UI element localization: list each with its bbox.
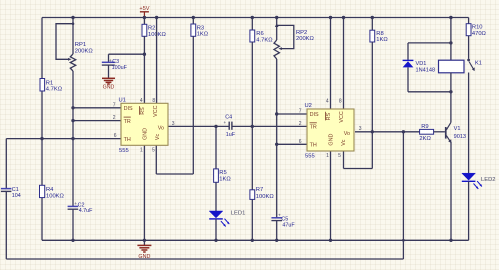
svg-text:R7: R7 bbox=[256, 187, 263, 193]
svg-text:200KΩ: 200KΩ bbox=[75, 48, 94, 54]
svg-text:VCC: VCC bbox=[339, 111, 345, 122]
svg-text:6: 6 bbox=[114, 133, 117, 139]
svg-text:V1: V1 bbox=[454, 126, 461, 132]
svg-text:47uF: 47uF bbox=[282, 222, 295, 228]
svg-text:2: 2 bbox=[299, 121, 302, 127]
svg-text:8: 8 bbox=[339, 99, 342, 105]
svg-text:GND: GND bbox=[143, 128, 149, 140]
svg-text:4: 4 bbox=[140, 98, 143, 104]
svg-text:VCC: VCC bbox=[153, 105, 159, 116]
svg-text:R5: R5 bbox=[219, 170, 226, 176]
svg-text:1KΩ: 1KΩ bbox=[197, 32, 209, 38]
svg-text:7: 7 bbox=[113, 102, 116, 108]
svg-text:R2: R2 bbox=[148, 26, 155, 32]
svg-text:GND: GND bbox=[103, 85, 115, 91]
svg-text:555: 555 bbox=[305, 154, 315, 160]
svg-text:Vo: Vo bbox=[158, 125, 164, 131]
svg-text:1KΩ: 1KΩ bbox=[219, 177, 231, 183]
svg-text:100uF: 100uF bbox=[112, 65, 128, 71]
svg-text:R9: R9 bbox=[421, 124, 428, 130]
svg-text:DIS: DIS bbox=[310, 112, 319, 118]
svg-text:1uF: 1uF bbox=[226, 132, 236, 138]
svg-text:470Ω: 470Ω bbox=[472, 31, 487, 37]
svg-text:U1: U1 bbox=[119, 98, 126, 104]
svg-text:100KΩ: 100KΩ bbox=[46, 193, 65, 199]
svg-text:C4: C4 bbox=[225, 115, 232, 121]
svg-text:TR: TR bbox=[310, 125, 317, 131]
svg-text:K1: K1 bbox=[475, 60, 482, 66]
svg-text:Vc: Vc bbox=[341, 139, 347, 146]
svg-text:+5V: +5V bbox=[139, 6, 149, 12]
svg-text:R1: R1 bbox=[46, 80, 53, 86]
svg-text:4.7uF: 4.7uF bbox=[79, 208, 93, 214]
svg-text:RP1: RP1 bbox=[75, 42, 86, 48]
svg-text:R3: R3 bbox=[197, 25, 204, 31]
svg-text:6: 6 bbox=[299, 139, 302, 145]
svg-text:GND: GND bbox=[138, 254, 150, 260]
svg-text:RS: RS bbox=[326, 113, 332, 121]
svg-text:9013: 9013 bbox=[454, 134, 466, 140]
svg-text:DIS: DIS bbox=[124, 106, 133, 112]
svg-text:555: 555 bbox=[119, 148, 129, 154]
svg-text:TH: TH bbox=[310, 143, 317, 149]
svg-text:R10: R10 bbox=[472, 25, 483, 31]
svg-text:+: + bbox=[224, 120, 227, 125]
svg-text:1: 1 bbox=[140, 147, 143, 153]
svg-text:1N4148: 1N4148 bbox=[416, 68, 436, 74]
svg-text:R6: R6 bbox=[256, 31, 263, 37]
svg-text:TH: TH bbox=[124, 137, 131, 143]
svg-text:104: 104 bbox=[12, 193, 21, 199]
svg-text:1KΩ: 1KΩ bbox=[376, 37, 388, 43]
svg-text:U2: U2 bbox=[305, 103, 312, 109]
svg-text:2KΩ: 2KΩ bbox=[419, 136, 431, 142]
svg-text:2: 2 bbox=[113, 115, 116, 121]
svg-text:8: 8 bbox=[152, 98, 155, 104]
svg-text:LED1: LED1 bbox=[231, 210, 246, 216]
svg-text:C3: C3 bbox=[112, 59, 119, 65]
svg-text:R4: R4 bbox=[46, 187, 54, 193]
svg-text:4.7KΩ: 4.7KΩ bbox=[256, 38, 273, 44]
svg-text:R8: R8 bbox=[376, 31, 383, 37]
svg-text:RS: RS bbox=[140, 107, 146, 115]
svg-text:7: 7 bbox=[299, 109, 302, 115]
svg-text:100KΩ: 100KΩ bbox=[148, 32, 167, 38]
svg-text:1: 1 bbox=[326, 153, 329, 159]
svg-text:4.7KΩ: 4.7KΩ bbox=[46, 87, 63, 93]
svg-text:5: 5 bbox=[338, 153, 341, 159]
svg-text:100KΩ: 100KΩ bbox=[256, 194, 275, 200]
svg-text:VD1: VD1 bbox=[416, 61, 427, 67]
svg-text:Vc: Vc bbox=[155, 134, 161, 141]
svg-text:3: 3 bbox=[359, 126, 362, 132]
svg-text:200KΩ: 200KΩ bbox=[296, 36, 315, 42]
svg-text:LED2: LED2 bbox=[481, 177, 496, 183]
svg-text:RP2: RP2 bbox=[296, 30, 307, 36]
svg-text:GND: GND bbox=[329, 134, 335, 146]
svg-text:5: 5 bbox=[152, 147, 155, 153]
svg-text:Vo: Vo bbox=[344, 131, 350, 137]
svg-text:4: 4 bbox=[326, 99, 329, 105]
svg-text:TR: TR bbox=[124, 119, 131, 125]
svg-text:3: 3 bbox=[172, 121, 175, 127]
